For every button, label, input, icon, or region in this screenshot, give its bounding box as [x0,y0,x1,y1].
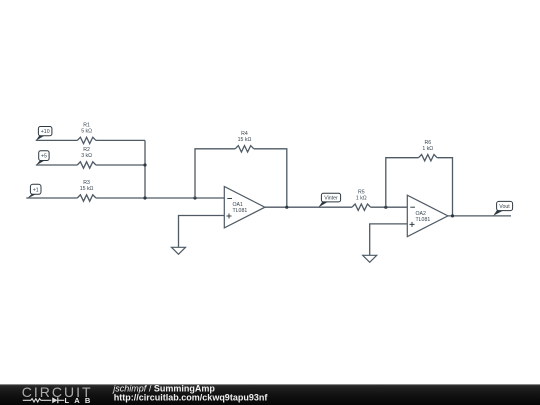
wire [36,139,78,141]
svg-text:1 kΩ: 1 kΩ [422,146,433,152]
node Vout flag [493,201,512,215]
junction [143,163,146,166]
svg-text:15 kΩ: 15 kΩ [238,137,252,143]
resistor R4 [235,131,254,152]
wire [26,197,77,199]
junction [143,196,146,199]
resistor R3 [77,180,96,201]
svg-text:Vinter: Vinter [324,196,338,202]
wire OA1 plus input [179,216,225,248]
wire OA2 output [448,215,511,217]
resistor R5 [352,189,371,210]
junction [384,206,387,209]
svg-text:Vout: Vout [499,204,510,210]
svg-text:OA1: OA1 [233,202,243,208]
wire OA2 plus input [370,224,408,255]
wire [96,164,145,166]
wire [36,164,78,166]
footer bar [0,384,540,405]
flag +10 [36,127,52,141]
junction [451,214,454,217]
resistor R2 [77,147,96,168]
ground [172,247,186,254]
svg-text:R1: R1 [83,123,90,129]
CircuitLab logo [22,384,96,405]
svg-text:LAB: LAB [65,396,96,405]
op-amp OA1 [224,187,265,228]
flag +1 [27,184,41,199]
resistor R1 [77,123,96,144]
svg-text:TL081: TL081 [416,217,431,223]
wire [96,197,224,199]
resistor R6 [419,140,438,161]
svg-text:+5: +5 [41,154,47,160]
wire bus vertical [144,140,146,198]
svg-text:R2: R2 [83,147,90,153]
junction [193,196,196,199]
svg-text:15 kΩ: 15 kΩ [80,186,94,192]
wire [371,206,408,208]
flag +5 [36,151,49,166]
wire OA1 feedback right vertical [254,149,287,207]
ground [363,255,377,262]
svg-text:http://circuitlab.com/ckwq9tap: http://circuitlab.com/ckwq9tapu93nf [114,393,269,403]
svg-text:3 kΩ: 3 kΩ [81,153,92,159]
svg-text:+1: +1 [33,187,39,193]
node Vinter flag [318,193,340,207]
svg-text:R4: R4 [241,131,248,137]
wire OA2 feedback right vertical [437,158,452,216]
wire OA1 feedback left vertical [195,149,235,198]
svg-text:TL081: TL081 [233,208,248,214]
svg-text:R6: R6 [424,140,431,146]
wire OA1 output [265,206,352,208]
wire [96,139,145,141]
svg-text:+10: +10 [41,129,50,135]
junction [285,206,288,209]
svg-text:R5: R5 [358,189,365,195]
wire OA2 feedback left vertical [386,158,419,208]
svg-text:5 kΩ: 5 kΩ [81,129,92,135]
svg-text:OA2: OA2 [416,211,426,217]
op-amp OA2 [407,195,448,236]
svg-text:1 kΩ: 1 kΩ [356,195,367,201]
svg-text:R3: R3 [83,180,90,186]
